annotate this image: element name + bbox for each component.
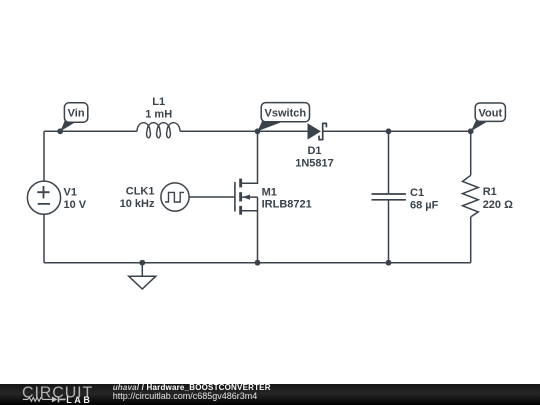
- svg-text:L1: L1: [152, 96, 165, 108]
- svg-text:220 Ω: 220 Ω: [483, 199, 513, 211]
- svg-text:IRLB8721: IRLB8721: [262, 198, 312, 210]
- svg-text:V1: V1: [64, 186, 77, 198]
- svg-text:D1: D1: [307, 145, 321, 157]
- svg-text:Vout: Vout: [478, 107, 502, 119]
- svg-text:Vin: Vin: [68, 108, 85, 120]
- svg-text:10 kHz: 10 kHz: [120, 198, 155, 210]
- svg-text:M1: M1: [262, 187, 277, 199]
- svg-text:1 mH: 1 mH: [145, 109, 172, 121]
- svg-text:CLK1: CLK1: [126, 185, 155, 197]
- svg-text:68 µF: 68 µF: [410, 199, 439, 211]
- svg-text:C1: C1: [410, 187, 424, 199]
- svg-text:Vswitch: Vswitch: [265, 107, 307, 119]
- svg-text:LAB: LAB: [66, 395, 92, 405]
- svg-text:1N5817: 1N5817: [295, 157, 334, 169]
- svg-text:10 V: 10 V: [64, 199, 87, 211]
- svg-text:R1: R1: [483, 186, 497, 198]
